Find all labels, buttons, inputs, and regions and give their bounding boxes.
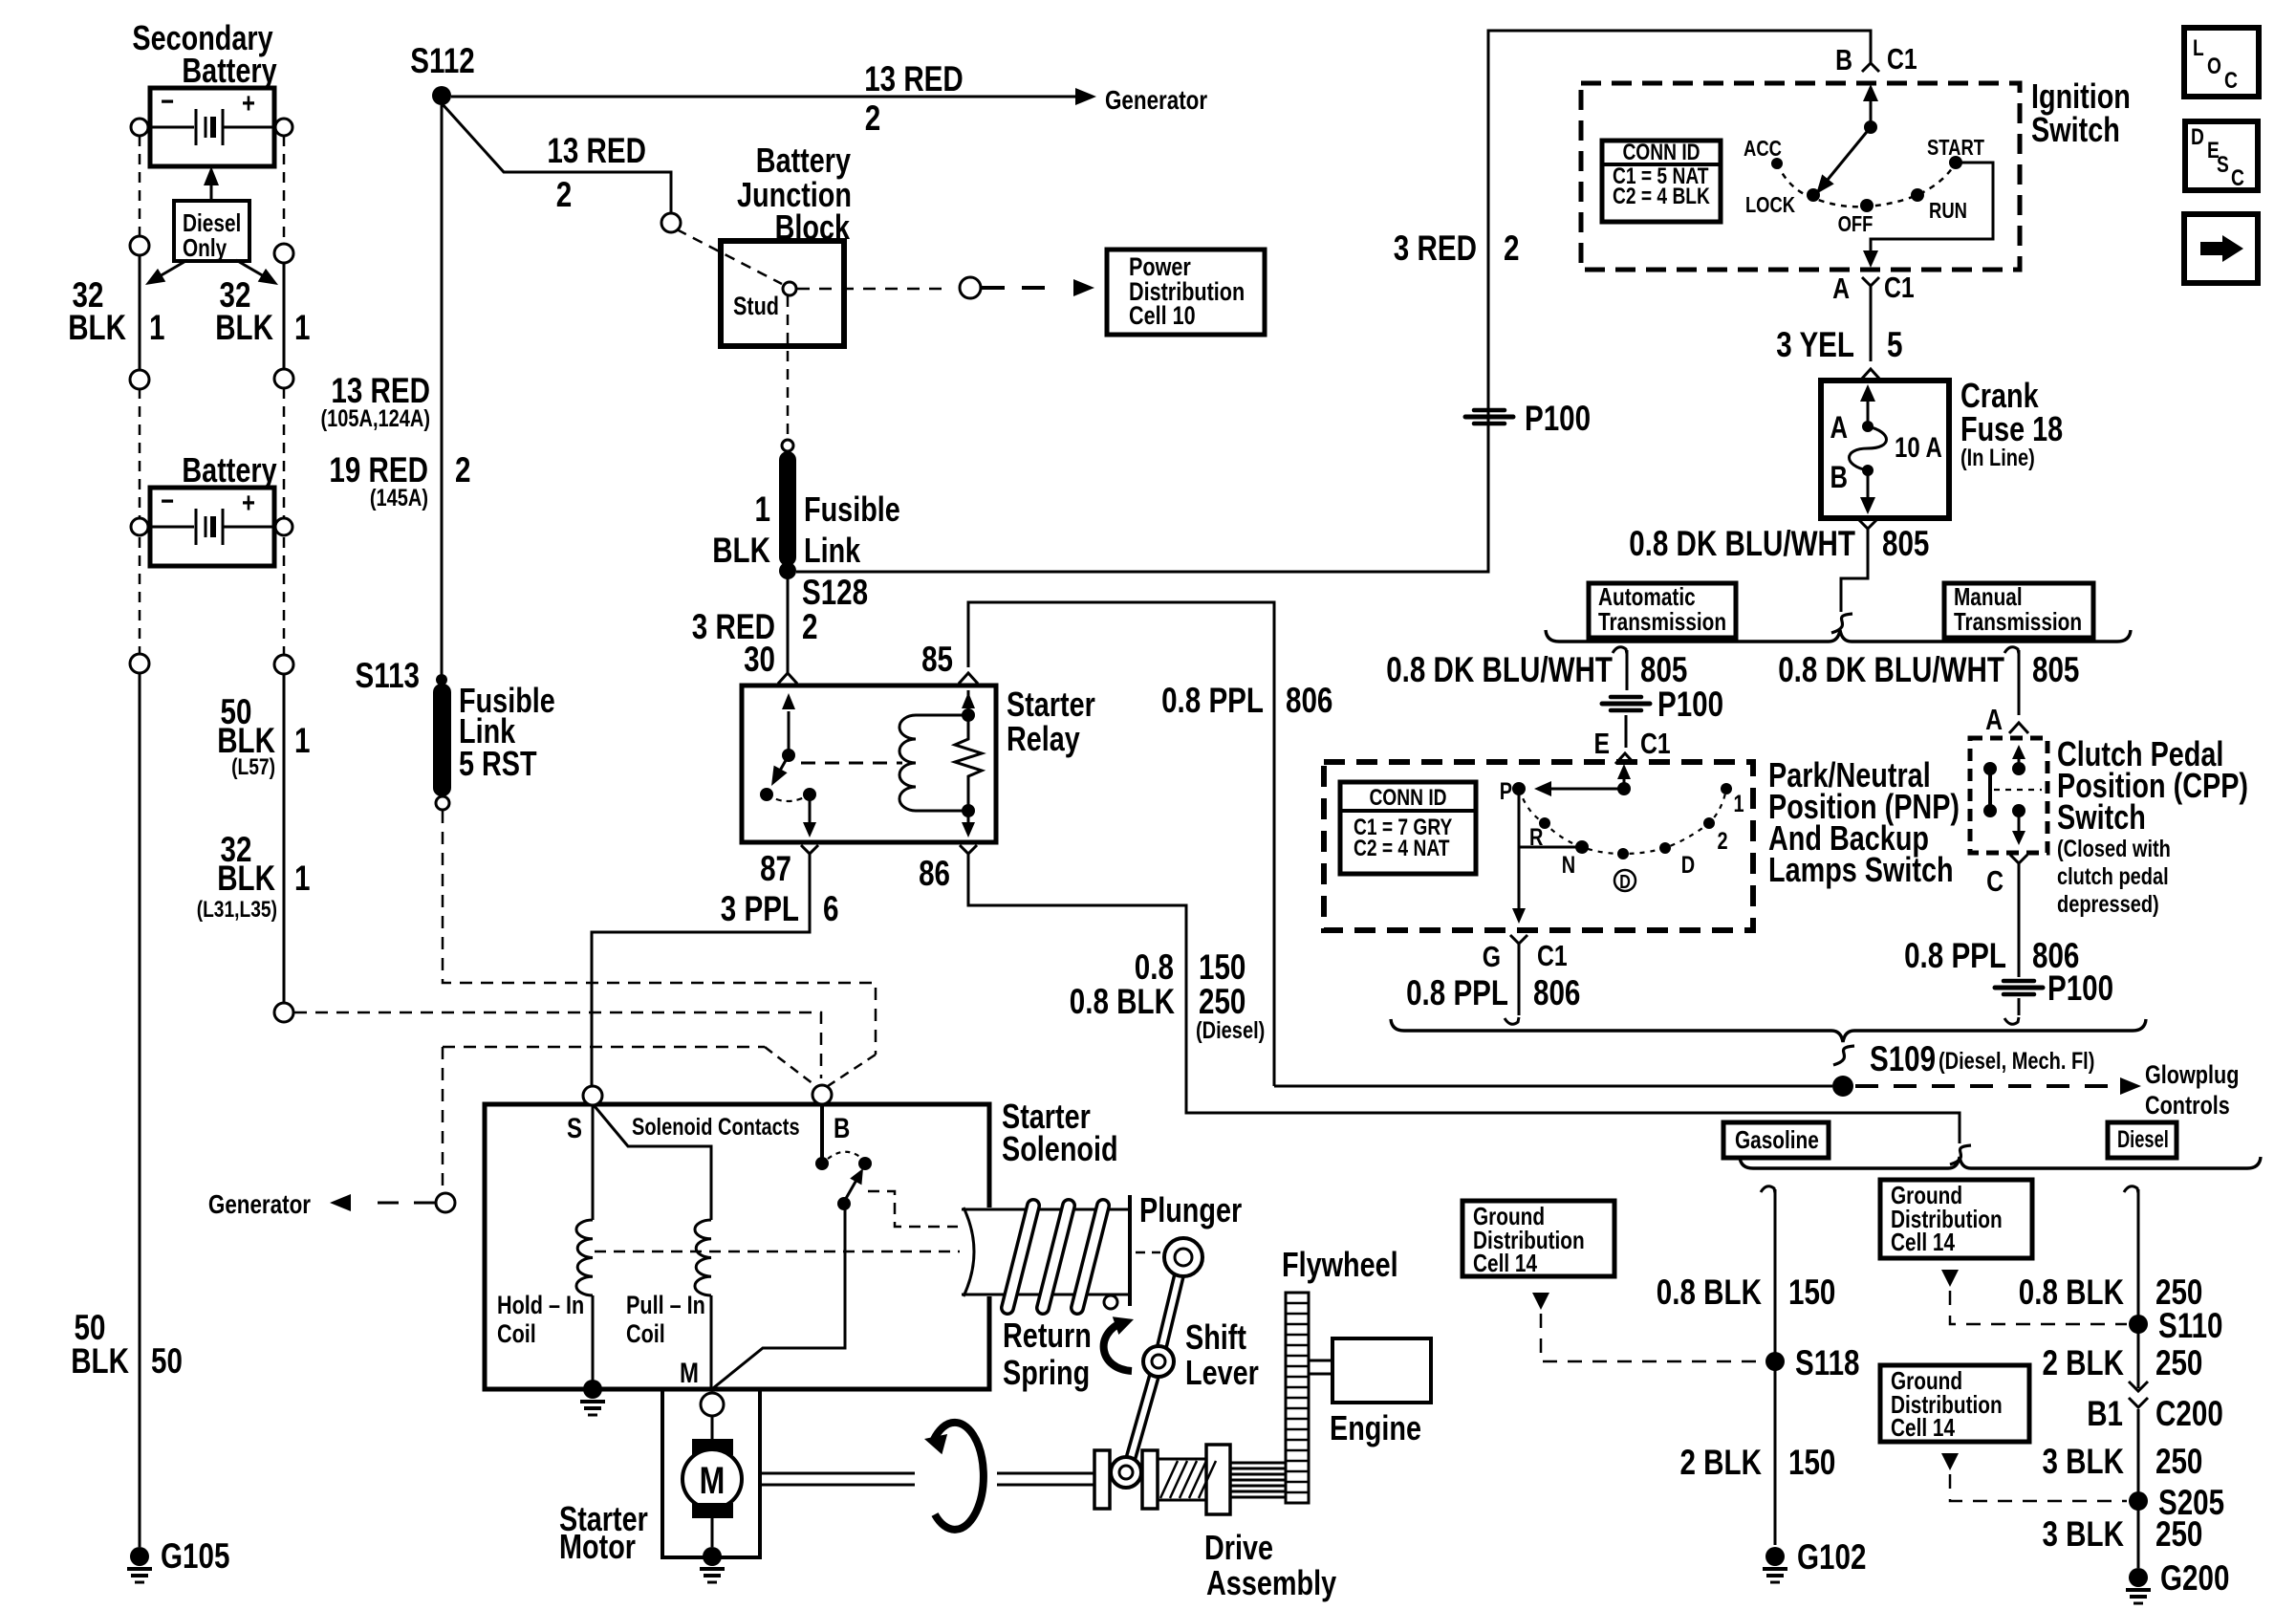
battery B2 Battery (150, 488, 274, 566)
svg-text:2: 2 (802, 607, 818, 646)
connector C200 (2129, 1382, 2148, 1391)
box Manual Transmission (1944, 583, 2093, 638)
ignition switch input arm (1870, 88, 1873, 127)
hook automatic branch (1613, 647, 1627, 654)
crank fuse internal (1867, 402, 1870, 422)
svg-text:250: 250 (2155, 1442, 2202, 1481)
svg-text:1: 1 (294, 721, 311, 760)
svg-text:START: START (1927, 135, 1984, 160)
engine box (1332, 1338, 1431, 1403)
squiggle below merge brace (1833, 1046, 1854, 1065)
svg-text:S112: S112 (410, 41, 475, 80)
solenoid contact B internals (820, 1104, 824, 1159)
wire diesel ground branch upper (2137, 1189, 2140, 1388)
svg-text:A: A (1985, 703, 2003, 736)
starter motor symbol (711, 1416, 714, 1439)
svg-text:N: N (1562, 852, 1575, 879)
wire to PNP switch (1625, 715, 1628, 748)
svg-text:3 PPL: 3 PPL (721, 889, 799, 928)
svg-text:B: B (1830, 460, 1849, 494)
svg-text:Pull – In: Pull – In (626, 1291, 705, 1319)
svg-text:G: G (1483, 940, 1501, 973)
wire S128 to ignition switch (3 RED) (796, 31, 1871, 572)
ground G200 (2129, 1568, 2148, 1587)
solenoid S terminal (583, 1086, 602, 1105)
svg-text:B: B (1835, 43, 1852, 76)
svg-text:86: 86 (919, 854, 950, 893)
svg-text:0.8 BLK: 0.8 BLK (1070, 982, 1175, 1021)
wire CPP output down (2018, 876, 2021, 977)
svg-text:Generator: Generator (208, 1189, 311, 1219)
fusible link F2 (5 RST) (433, 684, 451, 796)
CPP switch dashed box (1970, 738, 2047, 853)
PNP P contact and wires (1512, 782, 1526, 795)
CONN ID box ignition (1602, 141, 1721, 222)
svg-text:2: 2 (865, 98, 881, 138)
svg-text:CONN ID: CONN ID (1622, 140, 1700, 165)
svg-text:3 YEL: 3 YEL (1776, 325, 1854, 364)
arrow to Generator left (371, 1202, 435, 1205)
wire S112 diagonal to battery junction block drop (442, 103, 671, 213)
box Diesel (2108, 1122, 2177, 1158)
connector P100 on ignition feed (1474, 408, 1505, 413)
ignition position dots (1771, 158, 1783, 169)
svg-text:Spring: Spring (1003, 1353, 1090, 1392)
svg-text:Battery: Battery (182, 450, 276, 490)
svg-text:2: 2 (1717, 828, 1727, 855)
return spring arrow (1104, 1322, 1132, 1371)
box Automatic Transmission (1589, 583, 1736, 638)
svg-text:Solenoid: Solenoid (1002, 1129, 1118, 1168)
svg-text:Flywheel: Flywheel (1282, 1245, 1398, 1284)
svg-text:BLK: BLK (712, 531, 770, 570)
ground triangle middle (1941, 1270, 1959, 1287)
svg-text:Cell 10: Cell 10 (1129, 301, 1196, 330)
svg-text:clutch pedal: clutch pedal (2057, 863, 2169, 890)
svg-text:Transmission: Transmission (1598, 607, 1726, 636)
terminal circle left column node 2 (130, 370, 149, 389)
wire dashed fusible link to solenoid B (upper path) (443, 811, 876, 1055)
terminal circle right column top (275, 119, 292, 136)
wire dashed S109 to glowplug controls (1855, 1084, 2111, 1088)
svg-text:13 RED: 13 RED (331, 371, 430, 410)
svg-text:Stud: Stud (733, 292, 779, 320)
shift lever (1159, 1257, 1183, 1360)
svg-text:Battery: Battery (182, 51, 276, 90)
wire dashed stud to power distribution (797, 288, 950, 291)
wire pull-in coil to M (710, 1295, 713, 1388)
svg-text:Battery: Battery (756, 141, 851, 180)
svg-text:0.8 PPL: 0.8 PPL (1161, 681, 1264, 720)
svg-text:C2 = 4 BLK: C2 = 4 BLK (1613, 184, 1710, 209)
hook manual branch (2004, 647, 2019, 654)
wire break squiggle above split brace (1831, 614, 1852, 633)
node S128 junction dot (779, 562, 796, 579)
svg-text:805: 805 (1640, 650, 1687, 689)
dashed plunger to shift lever (1136, 1251, 1160, 1254)
svg-text:P100: P100 (2047, 968, 2113, 1008)
svg-text:1: 1 (755, 490, 771, 529)
PNP position arc (1519, 789, 1726, 854)
box Ground Distribution Cell 14 left (1462, 1201, 1614, 1276)
svg-text:Cell 14: Cell 14 (1473, 1249, 1537, 1277)
svg-text:LOCK: LOCK (1745, 192, 1795, 217)
plunger coil wraps (1007, 1206, 1033, 1308)
svg-text:Fuse 18: Fuse 18 (1960, 409, 2063, 448)
hold-in coil (576, 1220, 593, 1295)
svg-text:BLK: BLK (68, 308, 126, 347)
svg-text:150: 150 (1199, 947, 1245, 987)
svg-text:806: 806 (1533, 973, 1580, 1012)
svg-text:Generator: Generator (1105, 85, 1207, 115)
relay coil (967, 690, 970, 715)
svg-text:(Diesel, Mech. Fl): (Diesel, Mech. Fl) (1939, 1048, 2094, 1075)
svg-text:S: S (2217, 152, 2229, 178)
battery junction block box (721, 241, 844, 346)
wire S112 main vertical (441, 105, 444, 675)
svg-text:3 RED: 3 RED (1394, 228, 1477, 268)
svg-text:2 BLK: 2 BLK (2043, 1343, 2125, 1382)
svg-text:150: 150 (1788, 1443, 1835, 1482)
wire S128 down to relay pin 30 (787, 572, 790, 675)
ignition switch dashed box (1581, 83, 2020, 270)
svg-text:B1: B1 (2087, 1394, 2123, 1433)
svg-text:Assembly: Assembly (1206, 1563, 1336, 1602)
arrow Diesel Only to right wire (236, 260, 271, 280)
svg-text:30: 30 (744, 640, 775, 679)
svg-text:Cell 14: Cell 14 (1891, 1228, 1955, 1256)
svg-text:D: D (1681, 852, 1695, 879)
svg-text:P100: P100 (1657, 685, 1723, 724)
battery B1 Secondary Battery (150, 88, 274, 166)
svg-text:S: S (567, 1113, 582, 1144)
connector below crank fuse (1859, 520, 1876, 541)
svg-text:Transmission: Transmission (1954, 607, 2082, 636)
svg-text:Only: Only (183, 233, 227, 262)
svg-text:C1: C1 (1884, 271, 1915, 304)
wire crank fuse output to split (1841, 539, 1868, 612)
drive assembly (1094, 1450, 1110, 1509)
wire PNP output down to merge (1518, 956, 1521, 1015)
svg-text:(145A): (145A) (370, 485, 428, 511)
ground G102 (1765, 1547, 1785, 1566)
wire pin 86 to ground splice (968, 866, 1960, 1143)
svg-text:87: 87 (760, 849, 791, 888)
motor shaft (762, 1472, 915, 1475)
flywheel to engine link (1309, 1360, 1332, 1362)
svg-text:Gasoline: Gasoline (1735, 1125, 1819, 1154)
svg-text:Controls: Controls (2145, 1091, 2230, 1120)
svg-text:0.8 BLK: 0.8 BLK (1657, 1273, 1762, 1312)
svg-text:+: + (242, 88, 255, 120)
svg-text:B: B (834, 1113, 850, 1144)
svg-text:6: 6 (823, 889, 839, 928)
terminal circle right column node 1 (274, 244, 293, 263)
wire ignition to crank fuse (1870, 298, 1873, 361)
svg-text:1: 1 (294, 308, 311, 347)
box Ground Distribution Cell 14 middle (1880, 1180, 2032, 1258)
svg-text:2: 2 (556, 175, 573, 214)
svg-text:3 BLK: 3 BLK (2043, 1514, 2125, 1554)
box Gasoline (1723, 1122, 1829, 1158)
plunger small circle (1104, 1295, 1117, 1309)
terminal circle left battery column top (131, 119, 148, 136)
solenoid moving contact arm (837, 1197, 851, 1210)
svg-text:13 RED: 13 RED (864, 59, 964, 98)
svg-text:13 RED: 13 RED (547, 131, 646, 170)
svg-text:Return: Return (1003, 1316, 1092, 1355)
arrow legend box (2184, 214, 2258, 283)
svg-text:3 BLK: 3 BLK (2043, 1442, 2125, 1481)
svg-text:805: 805 (1882, 524, 1929, 563)
svg-text:0.8 DK BLU/WHT: 0.8 DK BLU/WHT (1778, 650, 2004, 689)
merge brace to S109 (1391, 1019, 2146, 1042)
PNP entry arrow (1623, 771, 1626, 785)
wire dashed from right column to solenoid B terminal (294, 1012, 821, 1078)
starter motor box (662, 1389, 760, 1557)
rotation arrow (932, 1423, 984, 1530)
crank fuse 18 box (1821, 381, 1949, 518)
svg-text:S128: S128 (802, 573, 868, 612)
PNP position dots (1539, 817, 1550, 829)
squiggle above gasoline/diesel brace (1950, 1145, 1971, 1164)
ground at solenoid case (583, 1380, 602, 1399)
wire S to coils (595, 1106, 711, 1220)
gasoline/diesel split brace (1740, 1157, 2261, 1168)
svg-text:250: 250 (1199, 982, 1245, 1021)
svg-text:CONN ID: CONN ID (1369, 785, 1446, 811)
arrow Diesel Only to secondary battery (210, 176, 213, 199)
svg-text:−: − (161, 486, 174, 517)
svg-text:Coil: Coil (497, 1319, 536, 1348)
svg-text:5: 5 (1887, 325, 1903, 364)
svg-text:M: M (700, 1460, 726, 1502)
svg-text:19 RED: 19 RED (329, 450, 428, 490)
wire automatic branch down (1626, 650, 1629, 690)
svg-text:10 A: 10 A (1895, 432, 1942, 464)
svg-text:0.8 DK BLU/WHT: 0.8 DK BLU/WHT (1386, 650, 1613, 689)
connector pin 30 (778, 673, 797, 684)
svg-text:0.8 PPL: 0.8 PPL (1904, 936, 2006, 975)
relay resistor (955, 715, 982, 811)
svg-text:P: P (1500, 778, 1512, 805)
split brace transmissions (1546, 630, 2131, 642)
svg-text:C1: C1 (1887, 42, 1917, 76)
starter relay box (742, 685, 996, 842)
svg-text:L: L (2193, 35, 2204, 61)
svg-text:Block: Block (775, 207, 851, 247)
wire hold-in coil to ground (592, 1295, 595, 1381)
terminal circle left column node 1 (130, 236, 149, 255)
svg-text:E: E (1594, 727, 1611, 760)
svg-text:C: C (2231, 165, 2244, 191)
wire pin 87 to solenoid S terminal (592, 866, 810, 1086)
svg-text:(In Line): (In Line) (1960, 445, 2035, 471)
connector pin 87 (801, 845, 818, 866)
svg-text:A: A (1830, 410, 1849, 445)
node S110 (2129, 1315, 2148, 1334)
svg-text:Diesel: Diesel (2117, 1126, 2169, 1153)
wire manual branch down (2018, 650, 2021, 715)
svg-text:C200: C200 (2155, 1394, 2223, 1433)
solenoid mechanical dashed to plunger (868, 1191, 958, 1227)
svg-text:Link: Link (804, 531, 861, 570)
terminal circle right column bottom node (274, 1003, 293, 1022)
wire START contact to output (1871, 163, 1993, 260)
svg-text:2: 2 (455, 450, 471, 490)
svg-text:D: D (1619, 872, 1631, 893)
svg-text:C: C (1986, 864, 2004, 898)
wire dashed stud down to fusible link F1 (787, 296, 790, 440)
ignition switch position arc (1777, 163, 1956, 207)
svg-text:1: 1 (149, 308, 165, 347)
node S205 (2129, 1491, 2148, 1511)
stud terminal circle (783, 282, 796, 295)
connector P100 CPP branch (2004, 979, 2034, 984)
svg-text:Lamps Switch: Lamps Switch (1768, 850, 1954, 889)
svg-text:5 RST: 5 RST (459, 744, 537, 783)
wire right column (secondary battery positive lead) (283, 136, 286, 244)
svg-text:+: + (242, 488, 255, 519)
svg-text:S109: S109 (1870, 1039, 1936, 1078)
svg-text:C: C (2224, 68, 2238, 94)
svg-text:O: O (2207, 54, 2221, 79)
svg-text:A: A (1832, 272, 1850, 305)
svg-text:Relay: Relay (1007, 719, 1080, 758)
svg-text:OFF: OFF (1838, 211, 1874, 236)
svg-text:BLK: BLK (215, 308, 273, 347)
svg-text:ACC: ACC (1744, 136, 1782, 161)
hook diesel branch (2124, 1186, 2138, 1193)
box Power Distribution Cell 10 (1107, 250, 1265, 335)
ground at starter motor (703, 1547, 722, 1566)
svg-text:G105: G105 (161, 1536, 229, 1576)
LOC legend box (2184, 28, 2259, 97)
ground triangle left (1532, 1293, 1549, 1310)
svg-text:(Diesel): (Diesel) (1196, 1017, 1265, 1044)
svg-text:Motor: Motor (559, 1527, 636, 1566)
hook gasoline branch (1761, 1186, 1775, 1193)
svg-text:D: D (2191, 124, 2204, 150)
PNP switch dashed box (1324, 762, 1753, 930)
mechanical dashed coil axis to plunger (595, 1251, 960, 1253)
svg-text:Coil: Coil (626, 1319, 665, 1348)
solenoid B terminal (812, 1085, 832, 1104)
svg-text:Shift: Shift (1185, 1317, 1246, 1357)
terminal circles battery B2 (131, 518, 148, 535)
svg-text:Drive: Drive (1204, 1528, 1273, 1567)
svg-text:C1: C1 (1537, 939, 1568, 972)
svg-text:Glowplug: Glowplug (2145, 1060, 2239, 1089)
wire left column (secondary battery negative lead) (139, 136, 141, 237)
svg-text:Cell 14: Cell 14 (1891, 1413, 1955, 1442)
svg-text:50: 50 (151, 1341, 183, 1381)
wire dashed diagonal into B terminal right (828, 1055, 876, 1086)
svg-text:G200: G200 (2160, 1558, 2229, 1598)
relay mechanical dashed link (801, 762, 902, 765)
connector pin 86 (960, 845, 977, 866)
wire S112 to generator arrow (451, 96, 1078, 98)
flywheel gear (1286, 1293, 1309, 1503)
wire dashed circle to stud (677, 229, 782, 284)
wire dashed generator branch (443, 1046, 765, 1049)
svg-text:Plunger: Plunger (1139, 1190, 1242, 1229)
svg-text:M: M (680, 1358, 699, 1389)
terminal circle generator branch (436, 1193, 455, 1212)
CPP internal contacts (2018, 751, 2021, 765)
node S118 (1765, 1352, 1785, 1371)
svg-text:RUN: RUN (1929, 198, 1967, 223)
svg-text:150: 150 (1788, 1273, 1835, 1312)
svg-text:(Closed with: (Closed with (2057, 836, 2171, 862)
DESC legend box (2185, 121, 2258, 190)
terminal circle left column node 3 (130, 654, 149, 673)
svg-text:BLK: BLK (71, 1341, 129, 1381)
svg-text:2 BLK: 2 BLK (1680, 1443, 1763, 1482)
svg-text:Starter: Starter (1007, 685, 1095, 724)
svg-text:−: − (161, 86, 174, 118)
wire 806 to S109 (1274, 1085, 1832, 1088)
svg-text:Fusible: Fusible (804, 490, 900, 529)
label Diesel Only box (174, 201, 249, 261)
svg-text:0.8: 0.8 (1135, 947, 1174, 987)
svg-text:Engine: Engine (1330, 1408, 1421, 1447)
svg-text:R: R (1529, 824, 1543, 851)
wire diesel ground branch lower (2137, 1409, 2140, 1568)
fusible link F1 (1 BLK) (782, 440, 793, 451)
svg-text:Switch: Switch (2031, 110, 2120, 149)
svg-text:C1: C1 (1640, 727, 1671, 760)
ground triangle lower (1941, 1453, 1959, 1470)
svg-text:S113: S113 (356, 656, 421, 695)
svg-text:2: 2 (1504, 228, 1520, 268)
pull-in coil (695, 1220, 711, 1295)
svg-text:S118: S118 (1795, 1343, 1860, 1382)
svg-text:1: 1 (1733, 791, 1744, 817)
dashed ground distribution to S110 (1950, 1291, 2127, 1324)
dashed ground distribution to S205 (1950, 1474, 2127, 1501)
svg-text:P100: P100 (1525, 399, 1591, 438)
plunger (962, 1208, 1129, 1211)
ground G105 (130, 1547, 149, 1566)
relay switch internal (788, 711, 791, 755)
CONN ID box PNP (1340, 782, 1476, 874)
svg-text:805: 805 (2032, 650, 2079, 689)
svg-text:1: 1 (294, 859, 311, 898)
svg-text:806: 806 (1286, 681, 1332, 720)
terminal circle above battery junction block (661, 213, 681, 232)
terminal circle right column node 2 (274, 369, 293, 388)
svg-text:depressed): depressed) (2057, 891, 2159, 918)
terminal circle right column node 3 (274, 655, 293, 674)
svg-text:250: 250 (2155, 1343, 2202, 1382)
svg-text:(105A,124A): (105A,124A) (321, 405, 431, 432)
svg-text:Solenoid Contacts: Solenoid Contacts (632, 1114, 800, 1141)
svg-text:0.8 PPL: 0.8 PPL (1406, 973, 1508, 1012)
wire pin 85 to S109 line (968, 602, 1274, 1086)
starter solenoid box (485, 1104, 989, 1389)
svg-text:Hold – In: Hold – In (497, 1291, 584, 1319)
svg-text:250: 250 (2155, 1514, 2202, 1554)
svg-text:0.8 BLK: 0.8 BLK (2019, 1273, 2124, 1312)
svg-text:C2 = 4 NAT: C2 = 4 NAT (1354, 836, 1450, 861)
svg-text:(L31,L35): (L31,L35) (197, 897, 277, 923)
svg-text:BLK: BLK (217, 859, 275, 898)
svg-text:G102: G102 (1797, 1537, 1866, 1577)
PNP arrow to P contact (1547, 788, 1622, 791)
arrow Diesel Only to left wire (153, 260, 187, 280)
connector P100 automatic branch (1611, 695, 1641, 700)
